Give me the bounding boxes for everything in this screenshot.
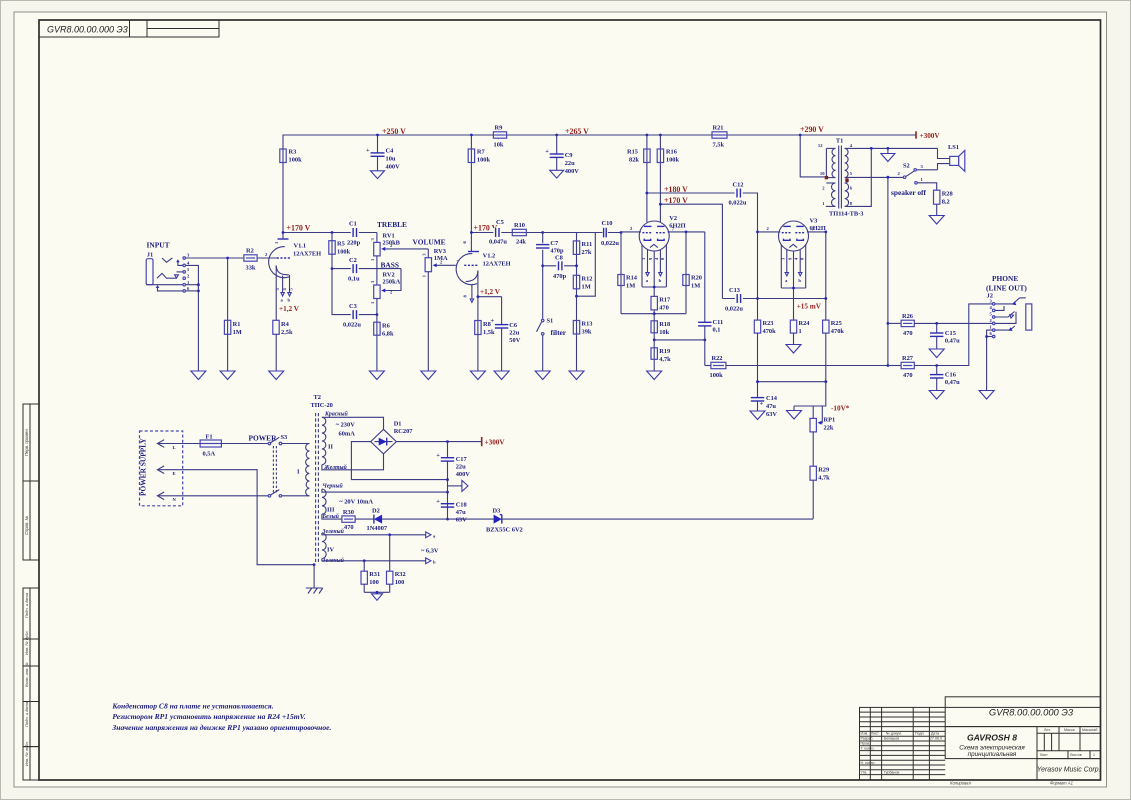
svg-text:470: 470 — [903, 372, 913, 379]
svg-text:RV3: RV3 — [434, 248, 446, 255]
fuse F1 — [200, 434, 221, 458]
svg-text:+170 V: +170 V — [664, 196, 688, 205]
svg-text:0,1: 0,1 — [713, 327, 721, 334]
svg-text:470: 470 — [344, 524, 354, 531]
resistor R26 — [888, 313, 914, 337]
resistor R22 — [705, 340, 726, 379]
svg-text:~ 20V 10mA: ~ 20V 10mA — [339, 499, 373, 506]
wire input signal to V1.1 grid — [186, 257, 277, 260]
svg-text:R11: R11 — [582, 241, 593, 248]
svg-text:R3: R3 — [289, 149, 297, 156]
wire winding II yellow lead to bridge — [322, 454, 384, 470]
svg-text:C9: C9 — [565, 152, 573, 159]
transformer T2 — [311, 394, 333, 564]
resistor R21 — [712, 125, 727, 149]
ground (C6) — [494, 371, 509, 380]
svg-text:Лист: Лист — [1040, 753, 1048, 757]
capacitor C3 — [332, 269, 378, 329]
svg-text:10k: 10k — [659, 329, 669, 336]
svg-text:R9: R9 — [495, 125, 503, 132]
svg-text:22u: 22u — [565, 160, 575, 167]
svg-text:E: E — [173, 471, 176, 476]
resistor R28 — [934, 190, 953, 215]
svg-text:Инв. № подл.: Инв. № подл. — [24, 741, 29, 766]
resistor R18 — [651, 314, 670, 340]
svg-text:Пров.: Пров. — [861, 742, 871, 746]
svg-text:D1: D1 — [394, 421, 402, 428]
svg-text:Красный: Красный — [324, 411, 349, 418]
resistor R10 — [512, 222, 526, 246]
svg-text:Зеленый: Зеленый — [322, 528, 345, 535]
resistor R12 — [573, 264, 592, 296]
connector J1 input jack — [146, 252, 190, 293]
svg-text:Лист: Лист — [871, 732, 879, 736]
svg-text:b: b — [288, 298, 291, 303]
ground (R24) — [786, 345, 801, 354]
svg-text:Подп. и дата: Подп. и дата — [24, 701, 29, 727]
svg-text:R31: R31 — [369, 571, 380, 578]
svg-text:C2: C2 — [349, 257, 357, 264]
svg-text:R29: R29 — [818, 467, 829, 474]
capacitor C4 — [366, 135, 400, 171]
capacitor C15 — [930, 323, 960, 349]
svg-text:Дата: Дата — [931, 732, 939, 736]
svg-text:b: b — [659, 278, 662, 283]
svg-text:b: b — [798, 278, 801, 283]
node PHONE (LINE OUT) label — [986, 274, 1027, 293]
svg-text:-10V*: -10V* — [831, 405, 850, 413]
svg-text:filter: filter — [551, 328, 567, 337]
svg-text:47u: 47u — [456, 509, 466, 516]
svg-text:Н. контр.: Н. контр. — [861, 761, 876, 765]
svg-text:Лит.: Лит. — [1044, 728, 1051, 732]
svg-text:+300V: +300V — [920, 132, 941, 140]
resistor R30 — [342, 509, 355, 531]
svg-text:C10: C10 — [602, 220, 613, 227]
svg-text:IV: IV — [327, 547, 334, 554]
svg-text:T2: T2 — [314, 394, 321, 401]
svg-text:+: + — [436, 452, 440, 459]
svg-text:III: III — [327, 507, 335, 514]
svg-text:Подп.: Подп. — [915, 732, 925, 736]
svg-text:100k: 100k — [477, 157, 491, 164]
svg-text:ТП114-ТВ-3: ТП114-ТВ-3 — [829, 211, 863, 218]
capacitor C14 — [751, 382, 778, 418]
svg-text:R26: R26 — [902, 313, 914, 320]
ground (C9) — [550, 170, 564, 178]
svg-text:1M: 1M — [626, 283, 635, 290]
wire E line to chassis — [164, 470, 315, 566]
svg-text:S3: S3 — [281, 434, 288, 441]
ground (speaker return) — [881, 148, 895, 161]
svg-text:C12: C12 — [733, 182, 744, 189]
svg-text:7,5k: 7,5k — [713, 142, 725, 149]
svg-text:C3: C3 — [349, 303, 357, 310]
svg-text:RV2: RV2 — [383, 271, 395, 278]
wire V3 grid — [758, 226, 781, 232]
svg-text:+180 V: +180 V — [664, 185, 688, 194]
double triode V2 — [639, 215, 685, 251]
resistor R27 — [888, 355, 914, 379]
capacitor C12 — [729, 182, 747, 207]
resistor R7 — [468, 135, 490, 233]
svg-text:D3: D3 — [493, 508, 501, 515]
resistor R17 — [651, 296, 671, 313]
resistor R1 — [224, 258, 241, 371]
wire R18/R19/C11 junction — [653, 339, 706, 342]
svg-text:S1: S1 — [547, 318, 554, 325]
svg-text:R21: R21 — [713, 125, 724, 132]
svg-text:82k: 82k — [629, 157, 639, 164]
ground (C4) — [371, 171, 385, 179]
svg-text:D2: D2 — [372, 508, 380, 515]
svg-text:PHONE: PHONE — [992, 274, 1018, 283]
svg-text:ТПС-20: ТПС-20 — [311, 402, 333, 409]
svg-text:+1,2 V: +1,2 V — [279, 305, 300, 313]
svg-text:C4: C4 — [386, 148, 395, 155]
potentiometer RV1 — [370, 233, 428, 269]
svg-text:R23: R23 — [763, 320, 774, 327]
wire -10V bias bus — [756, 380, 827, 383]
svg-text:V1.1: V1.1 — [294, 243, 307, 250]
svg-text:0,022u: 0,022u — [725, 306, 743, 313]
svg-text:Гурбанов: Гурбанов — [884, 770, 899, 774]
svg-text:R16: R16 — [666, 149, 678, 156]
svg-text:400V: 400V — [565, 168, 580, 175]
svg-text:0,5A: 0,5A — [203, 451, 216, 458]
svg-text:~ 230V: ~ 230V — [336, 422, 356, 429]
svg-text:Значение напряжения на движке: Значение напряжения на движке RP1 указан… — [111, 723, 331, 732]
double triode V3 — [779, 218, 826, 252]
svg-text:470p: 470p — [550, 248, 564, 255]
wire R12/R13 junction to C10 node — [575, 233, 595, 298]
svg-text:POWER SUPPLY: POWER SUPPLY — [139, 438, 148, 496]
wire +170V plate node to tone stack — [282, 231, 377, 234]
capacitor C7 — [536, 240, 564, 255]
svg-text:470p: 470p — [553, 273, 567, 280]
svg-text:R22: R22 — [712, 355, 723, 362]
svg-text:63V: 63V — [456, 517, 467, 524]
svg-text:R24: R24 — [799, 320, 811, 327]
wire V3 plate to T1 — [807, 226, 827, 233]
svg-text:47u: 47u — [766, 403, 776, 410]
svg-text:R28: R28 — [942, 191, 953, 198]
svg-text:LS1: LS1 — [948, 144, 959, 151]
wire V2 grid — [621, 226, 641, 232]
transformer T1 — [818, 138, 864, 218]
resistor R9 — [493, 125, 506, 149]
svg-text:GVR8.00.00.000 Э3: GVR8.00.00.000 Э3 — [47, 24, 128, 34]
svg-text:C18: C18 — [456, 502, 467, 509]
ground (J1) — [191, 371, 206, 380]
wire R14/R17/R20 junction — [621, 312, 686, 315]
notes bottom left — [111, 702, 331, 732]
svg-text:Конденсатор С8 на плате не уст: Конденсатор С8 на плате не устанавливает… — [111, 702, 273, 711]
svg-text:R30: R30 — [343, 509, 354, 516]
svg-text:+170 V: +170 V — [287, 224, 311, 233]
svg-text:C15: C15 — [945, 330, 956, 337]
capacitor C16 — [930, 366, 960, 391]
svg-text:27k: 27k — [582, 249, 592, 256]
svg-text:8,2: 8,2 — [942, 199, 950, 206]
svg-text:Т. контр.: Т. контр. — [861, 746, 875, 750]
svg-text:60mA: 60mA — [339, 431, 356, 438]
wire C7/C8 branch and filter switch feed — [541, 233, 544, 319]
switch S3 — [268, 434, 287, 497]
svg-text:Взам. инв. №: Взам. инв. № — [24, 662, 29, 687]
resistor R3 — [280, 149, 302, 164]
svg-text:250kA: 250kA — [383, 278, 401, 285]
top-left stamp box — [39, 20, 219, 37]
wire bridge minus to C17 bottom — [351, 442, 447, 480]
node +300V terminal — [916, 131, 940, 140]
svg-text:C7: C7 — [550, 240, 559, 247]
capacitor C18 — [436, 498, 467, 524]
svg-text:12AX7EH: 12AX7EH — [293, 251, 321, 258]
svg-text:C5: C5 — [496, 219, 504, 226]
svg-text:10k: 10k — [494, 142, 504, 149]
svg-text:C1: C1 — [349, 221, 357, 228]
ground (R31/R32) — [372, 594, 383, 601]
resistor R32 — [387, 535, 406, 593]
svg-text:1M: 1M — [691, 283, 700, 290]
svg-text:+300V: +300V — [485, 439, 506, 447]
svg-text:39k: 39k — [582, 329, 592, 336]
svg-text:R25: R25 — [831, 320, 842, 327]
capacitor C6 — [491, 297, 521, 371]
svg-text:C11: C11 — [713, 319, 724, 326]
svg-text:Инв. № дубл.: Инв. № дубл. — [24, 630, 29, 655]
svg-text:S2: S2 — [903, 162, 910, 169]
connector J2 phone jack — [987, 293, 1032, 338]
resistor R6 — [374, 315, 394, 371]
svg-text:Масштаб: Масштаб — [1082, 728, 1097, 732]
svg-text:R32: R32 — [395, 571, 406, 578]
resistor R29 — [810, 432, 830, 519]
svg-text:+: + — [760, 401, 764, 408]
wire +250V/+265V/+290V top supply rail — [283, 134, 916, 233]
ground (RP1) — [787, 411, 802, 420]
svg-text:R14: R14 — [626, 275, 638, 282]
svg-text:1M: 1M — [233, 329, 242, 336]
wire heater winding lead b — [322, 558, 436, 564]
switch S1 filter — [537, 318, 554, 372]
svg-text:R15: R15 — [627, 149, 638, 156]
svg-text:0,047u: 0,047u — [489, 239, 507, 246]
wire +290V to T1 pin 10 — [800, 135, 825, 177]
wire bridge plus to +300V — [396, 440, 481, 443]
svg-text:400V: 400V — [386, 164, 401, 171]
ground (R8) — [470, 371, 485, 380]
svg-text:Листов: Листов — [1070, 753, 1082, 757]
svg-text:+15 mV: +15 mV — [797, 303, 822, 311]
svg-text:V2: V2 — [669, 215, 677, 222]
title block — [860, 697, 1101, 780]
left margin additional columns upper — [23, 404, 39, 560]
svg-text:V1.2: V1.2 — [483, 253, 496, 260]
svg-text:R7: R7 — [477, 149, 486, 156]
svg-text:22u: 22u — [456, 463, 466, 470]
svg-text:2,5k: 2,5k — [281, 329, 293, 336]
svg-text:12AX7EH: 12AX7EH — [483, 260, 511, 267]
wire +180V line — [646, 192, 759, 321]
resistor R16 — [657, 135, 679, 222]
svg-text:Изм.: Изм. — [861, 732, 869, 736]
svg-text:C16: C16 — [945, 372, 957, 379]
svg-text:Разраб.: Разраб. — [861, 737, 874, 741]
svg-text:220p: 220p — [347, 240, 361, 247]
potentiometer RP1 — [794, 382, 835, 432]
svg-text:Перв. примен.: Перв. примен. — [24, 428, 29, 456]
svg-text:F1: F1 — [206, 434, 213, 441]
left margin additional columns lower — [23, 588, 39, 780]
svg-text:24k: 24k — [516, 239, 526, 246]
svg-text:+290 V: +290 V — [800, 125, 824, 134]
title block left grid — [860, 707, 946, 780]
resistor R11 — [573, 233, 592, 266]
connector POWER SUPPLY — [139, 431, 183, 506]
svg-text:100k: 100k — [337, 249, 351, 256]
potentiometer RV2 — [370, 269, 401, 315]
svg-text:BZX55C 6V2: BZX55C 6V2 — [486, 527, 523, 534]
svg-text:12: 12 — [818, 143, 823, 148]
resistor R14 — [618, 233, 638, 314]
svg-text:~ 6,3V: ~ 6,3V — [421, 548, 439, 555]
svg-text:50V: 50V — [509, 337, 520, 344]
svg-text:R10: R10 — [514, 222, 525, 229]
svg-text:0,022u: 0,022u — [601, 240, 619, 247]
resistor R31 — [361, 561, 380, 593]
svg-text:R13: R13 — [582, 321, 593, 328]
ground (R4) — [269, 371, 284, 380]
wire D3 to R29 (-10V line) — [502, 518, 813, 520]
svg-text:INPUT: INPUT — [147, 241, 170, 250]
svg-text:+: + — [491, 318, 495, 325]
svg-text:GVR8.00.00.000 Э3: GVR8.00.00.000 Э3 — [989, 707, 1074, 718]
bridge rectifier D1 — [371, 421, 414, 454]
svg-text:27.06.0: 27.06.0 — [930, 737, 942, 741]
ground (R6) — [369, 371, 384, 380]
resistor R23 — [754, 320, 776, 382]
svg-text:L: L — [173, 445, 176, 450]
svg-text:C13: C13 — [729, 287, 740, 294]
ground (R13) — [569, 371, 584, 380]
loudspeaker LS1 — [938, 144, 965, 172]
svg-text:100k: 100k — [666, 157, 680, 164]
resistor R24 — [790, 320, 810, 344]
svg-text:R2: R2 — [246, 248, 254, 255]
resistor R15 — [627, 135, 650, 222]
ground (C14) — [750, 411, 765, 420]
svg-text:0,47u: 0,47u — [945, 379, 960, 386]
svg-text:b: b — [433, 559, 436, 564]
svg-text:470k: 470k — [831, 328, 845, 335]
ground (S1) — [535, 371, 550, 380]
capacitor C2 — [331, 257, 401, 283]
switch S2 speaker off — [847, 162, 938, 190]
svg-text:0,022u: 0,022u — [729, 200, 747, 207]
ground (J2) — [979, 391, 994, 400]
svg-text:T1: T1 — [836, 138, 843, 145]
wire R22 to NFB node — [726, 365, 888, 367]
svg-text:Формат А1: Формат А1 — [1050, 780, 1073, 785]
capacitor C8 — [543, 255, 577, 280]
wire D2 to D3 — [382, 518, 494, 520]
svg-text:+250 V: +250 V — [382, 127, 406, 136]
svg-text:speaker off: speaker off — [891, 188, 927, 197]
svg-text:+: + — [366, 147, 370, 154]
transformer T2 winding III — [322, 483, 374, 520]
svg-text:R12: R12 — [582, 275, 593, 282]
svg-text:R17: R17 — [659, 296, 671, 303]
node +300V terminal (PSU) — [482, 437, 506, 447]
wire R26 to J2 pin2 — [914, 322, 992, 325]
wire T1 pin 8 strap — [847, 148, 871, 206]
svg-text:+265 V: +265 V — [565, 127, 589, 136]
capacitor C9 — [545, 135, 579, 175]
svg-text:V3: V3 — [810, 218, 818, 225]
svg-text:R5: R5 — [337, 241, 345, 248]
svg-text:R18: R18 — [659, 321, 670, 328]
svg-text:VOLUME: VOLUME — [413, 238, 446, 247]
svg-text:+: + — [545, 148, 549, 155]
wire chassis lead below T2 — [313, 565, 315, 588]
svg-text:22k: 22k — [824, 425, 834, 432]
wire J1 sleeve to ground bus — [186, 265, 200, 371]
wire R30 to D2 — [355, 518, 374, 520]
svg-text:470: 470 — [903, 330, 913, 337]
resistor R25 — [823, 320, 845, 382]
resistor R4 — [273, 320, 293, 371]
svg-text:100: 100 — [369, 579, 379, 586]
svg-text:0,1u: 0,1u — [348, 276, 360, 283]
wire signal line C7 node to V2 grid — [543, 231, 623, 234]
ground (RV3) — [421, 371, 436, 380]
wire L line to fuse — [164, 443, 200, 445]
svg-text:R20: R20 — [691, 275, 702, 282]
svg-text:R19: R19 — [659, 348, 670, 355]
svg-text:4,7k: 4,7k — [659, 356, 671, 363]
svg-text:№ докум.: № докум. — [886, 732, 902, 736]
svg-text:1N4007: 1N4007 — [367, 525, 388, 532]
svg-text:470k: 470k — [763, 328, 777, 335]
wire V1.2 cathode node — [477, 295, 502, 298]
svg-text:100k: 100k — [289, 157, 303, 164]
resistor R13 — [573, 296, 592, 371]
svg-text:II: II — [328, 444, 333, 451]
svg-text:RC207: RC207 — [394, 428, 414, 435]
svg-text:1: 1 — [1093, 753, 1095, 757]
svg-text:Копировал: Копировал — [950, 780, 971, 785]
svg-text:1: 1 — [799, 328, 802, 335]
resistor R19 — [651, 340, 671, 371]
svg-text:4,7k: 4,7k — [818, 475, 830, 482]
V2 cathode box and heater pins — [641, 245, 666, 297]
wire R31/R32 common to ground — [364, 591, 390, 594]
triode V1.2 — [456, 233, 511, 303]
wire T1 secondary pin 4 to ground/speaker — [847, 147, 938, 150]
capacitor C13 — [722, 287, 825, 313]
svg-text:Масса: Масса — [1064, 728, 1075, 732]
svg-text:принципиальная: принципиальная — [968, 751, 1017, 758]
ground (R1) — [220, 371, 235, 380]
ground (C15) — [929, 349, 944, 358]
svg-text:BASS: BASS — [381, 260, 400, 269]
resistor R8 — [475, 297, 495, 371]
svg-text:400V: 400V — [456, 471, 471, 478]
svg-text:(LINE OUT): (LINE OUT) — [986, 284, 1027, 293]
svg-text:R4: R4 — [281, 321, 290, 328]
